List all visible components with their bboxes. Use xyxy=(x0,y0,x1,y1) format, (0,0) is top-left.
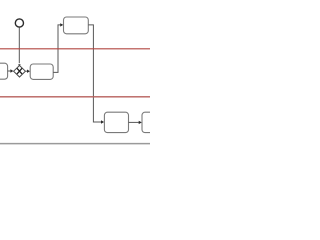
task T5 (bottom right, clipped at edge) xyxy=(142,112,162,132)
task T4 (bottom) xyxy=(104,112,128,132)
lane divider upper (red) xyxy=(0,48,150,50)
wire: task T2 to task T3 xyxy=(53,25,60,73)
wire: task T3 to task T4 xyxy=(88,25,101,122)
gateway X marker xyxy=(17,68,22,74)
lane divider lower (red) xyxy=(0,96,150,98)
task T3 (top) xyxy=(64,17,89,34)
wire: gateway to task T2 xyxy=(26,70,28,72)
wire: task T4 to task T5 xyxy=(129,121,139,123)
wire: task T1 to gateway xyxy=(8,70,11,72)
pool boundary bottom (gray) xyxy=(0,143,150,145)
task T2 (middle) xyxy=(30,64,53,79)
start event circle xyxy=(15,19,23,27)
task T1 (left, clipped at edge) xyxy=(0,63,8,79)
XOR gateway xyxy=(14,66,26,78)
wire: start event to gateway xyxy=(18,28,20,64)
